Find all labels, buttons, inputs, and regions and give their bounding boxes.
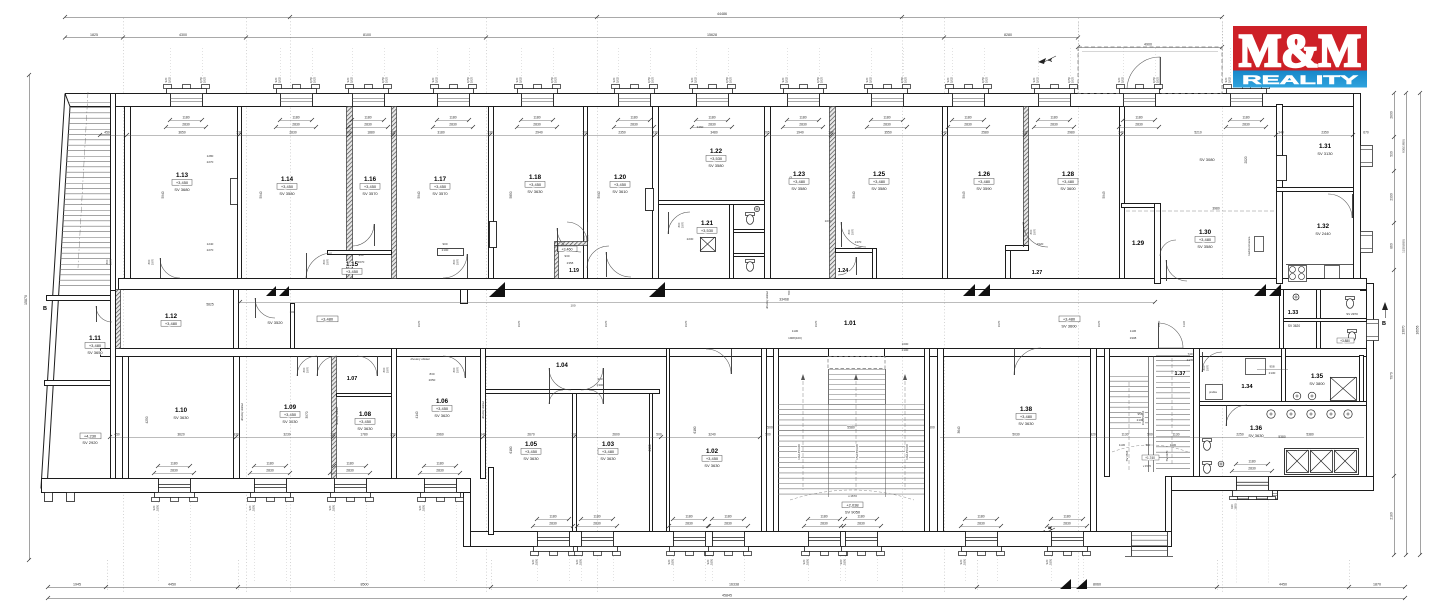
svg-text:+3,480: +3,480	[1020, 414, 1033, 419]
svg-text:+3,450: +3,450	[706, 456, 719, 461]
svg-text:1130: 1130	[1172, 433, 1179, 437]
svg-text:3970: 3970	[305, 411, 309, 418]
svg-text:SV 3630: SV 3630	[1248, 433, 1264, 438]
svg-text:5380: 5380	[1278, 435, 1286, 439]
svg-text:5943: 5943	[1102, 191, 1106, 198]
svg-text:100: 100	[582, 131, 588, 135]
svg-text:670: 670	[1363, 131, 1369, 135]
svg-text:2100: 2100	[902, 348, 909, 352]
svg-text:1850: 1850	[156, 504, 160, 511]
svg-text:+3,480: +3,480	[321, 317, 334, 322]
svg-text:1180: 1180	[182, 116, 189, 120]
svg-text:940: 940	[358, 253, 363, 257]
svg-text:450: 450	[104, 131, 110, 135]
svg-text:3640: 3640	[957, 426, 961, 433]
svg-text:4450: 4450	[168, 583, 176, 587]
svg-text:1970: 1970	[997, 320, 1001, 327]
svg-text:2580: 2580	[981, 131, 989, 135]
svg-text:1970: 1970	[306, 366, 310, 373]
svg-text:SV 3600: SV 3600	[1061, 324, 1077, 329]
svg-text:10x145/340: 10x145/340	[797, 444, 801, 460]
svg-text:+3,450: +3,450	[284, 412, 297, 417]
svg-text:2830: 2830	[883, 123, 891, 127]
svg-text:15x155/348: 15x155/348	[855, 444, 859, 460]
svg-text:1850: 1850	[710, 558, 714, 565]
svg-text:pračka: pračka	[1209, 390, 1217, 394]
svg-text:+3,480: +3,480	[873, 179, 886, 184]
svg-text:2830: 2830	[724, 522, 732, 526]
svg-text:+3,450: +3,450	[434, 184, 447, 189]
svg-text:SV 3610: SV 3610	[612, 189, 628, 194]
svg-text:1.01: 1.01	[844, 320, 857, 327]
svg-text:500: 500	[767, 426, 773, 430]
svg-text:2600: 2600	[612, 433, 620, 437]
svg-text:4140: 4140	[415, 411, 419, 418]
svg-text:1180: 1180	[964, 116, 971, 120]
svg-text:2830: 2830	[289, 131, 297, 135]
svg-text:1180: 1180	[533, 116, 540, 120]
svg-text:dřevěný obklad: dřevěný obklad	[240, 403, 244, 421]
svg-text:1.11: 1.11	[89, 335, 101, 342]
svg-text:2830: 2830	[292, 123, 300, 127]
svg-text:4450: 4450	[1279, 583, 1287, 587]
svg-text:1825: 1825	[820, 76, 824, 83]
svg-text:5580: 5580	[847, 426, 855, 430]
svg-text:2830: 2830	[533, 123, 541, 127]
svg-text:500: 500	[1147, 433, 1153, 437]
svg-text:SV 3630: SV 3630	[357, 426, 373, 431]
svg-text:1.07: 1.07	[347, 376, 358, 382]
svg-text:2980: 2980	[1067, 131, 1075, 135]
svg-text:1825: 1825	[470, 76, 474, 83]
svg-text:1.14: 1.14	[281, 176, 294, 183]
svg-text:1.26: 1.26	[978, 171, 991, 178]
svg-text:100: 100	[330, 433, 336, 437]
svg-text:100: 100	[571, 433, 577, 437]
svg-text:1.17: 1.17	[434, 176, 447, 183]
svg-text:1.10: 1.10	[175, 407, 188, 414]
svg-text:5940: 5940	[852, 191, 856, 198]
svg-text:1970: 1970	[456, 366, 460, 373]
svg-text:1908: 1908	[1130, 336, 1137, 340]
svg-text:1.30: 1.30	[1199, 229, 1212, 236]
svg-text:2050: 2050	[429, 378, 436, 382]
svg-text:1.20: 1.20	[614, 174, 627, 181]
svg-text:+3,460: +3,460	[561, 247, 572, 251]
svg-text:1825: 1825	[1121, 76, 1125, 83]
svg-text:v.1570: v.1570	[1143, 464, 1152, 468]
svg-text:1850: 1850	[332, 504, 336, 511]
svg-text:5940: 5940	[597, 191, 601, 198]
svg-text:1880: 1880	[367, 131, 375, 135]
svg-text:6180: 6180	[693, 426, 697, 433]
svg-text:265: 265	[764, 131, 770, 135]
svg-text:1136: 1136	[1130, 329, 1137, 333]
svg-text:SV 2440: SV 2440	[1315, 231, 1331, 236]
svg-text:5940: 5940	[417, 191, 421, 198]
svg-text:2830: 2830	[436, 469, 444, 473]
svg-text:+3,450: +3,450	[364, 184, 377, 189]
svg-text:1180: 1180	[364, 116, 371, 120]
svg-text:SV 3600: SV 3600	[1060, 186, 1076, 191]
svg-text:+3,450: +3,450	[529, 182, 542, 187]
svg-text:1970: 1970	[1206, 364, 1210, 371]
svg-text:910: 910	[597, 377, 602, 381]
svg-text:2358: 2358	[567, 261, 574, 265]
svg-text:SV 2970: SV 2970	[1346, 312, 1358, 316]
svg-text:1850: 1850	[1234, 503, 1238, 510]
svg-text:1825: 1825	[616, 76, 620, 83]
svg-text:250: 250	[390, 433, 396, 437]
svg-text:+3,480: +3,480	[978, 179, 991, 184]
svg-text:1825: 1825	[385, 76, 389, 83]
svg-text:SV 3630: SV 3630	[600, 456, 616, 461]
svg-text:1180: 1180	[708, 116, 715, 120]
svg-text:1970: 1970	[1157, 320, 1161, 327]
svg-text:1.08: 1.08	[359, 411, 372, 418]
svg-text:1.35: 1.35	[1311, 373, 1324, 380]
svg-text:dřevěný obklad: dřevěný obklad	[411, 357, 430, 361]
svg-text:2800: 2800	[1390, 111, 1394, 119]
svg-text:1180: 1180	[1063, 515, 1070, 519]
svg-text:1.24: 1.24	[838, 268, 849, 274]
svg-text:2830: 2830	[977, 522, 985, 526]
svg-text:5943: 5943	[962, 191, 966, 198]
svg-text:1.18: 1.18	[529, 174, 542, 181]
svg-text:340: 340	[1278, 131, 1284, 135]
svg-text:830: 830	[429, 372, 434, 376]
svg-text:5940: 5940	[161, 191, 165, 198]
svg-text:1.23: 1.23	[793, 171, 806, 178]
svg-text:2020: 2020	[1244, 156, 1248, 163]
svg-text:kachlová kamna: kachlová kamna	[1247, 236, 1251, 255]
svg-text:SV 3030: SV 3030	[282, 419, 298, 424]
svg-text:2080: 2080	[855, 246, 862, 250]
svg-text:500: 500	[656, 433, 662, 437]
svg-text:1825: 1825	[904, 76, 908, 83]
svg-text:2670: 2670	[527, 433, 535, 437]
svg-text:1.34: 1.34	[1241, 384, 1253, 390]
svg-text:1825: 1825	[950, 76, 954, 83]
svg-text:+2,038: +2,038	[846, 503, 859, 508]
svg-text:1280: 1280	[207, 154, 214, 158]
svg-text:1.03: 1.03	[602, 441, 615, 448]
svg-text:1180: 1180	[593, 515, 600, 519]
svg-text:1825: 1825	[729, 76, 733, 83]
svg-text:330: 330	[652, 131, 658, 135]
svg-text:1850: 1850	[806, 558, 810, 565]
svg-text:1825: 1825	[313, 76, 317, 83]
svg-text:1970: 1970	[684, 320, 688, 327]
svg-text:2830: 2830	[630, 123, 638, 127]
svg-text:+3,480: +3,480	[793, 179, 806, 184]
svg-text:2830: 2830	[1135, 123, 1143, 127]
svg-text:1.29: 1.29	[1132, 240, 1145, 247]
svg-text:3480: 3480	[710, 131, 718, 135]
svg-text:1970: 1970	[1097, 320, 1101, 327]
svg-text:1.37: 1.37	[1174, 371, 1185, 377]
svg-text:v.1670: v.1670	[848, 494, 857, 498]
svg-text:140: 140	[480, 433, 486, 437]
svg-text:1970: 1970	[604, 320, 608, 327]
svg-text:2270: 2270	[207, 248, 214, 252]
svg-text:+3,450: +3,450	[346, 269, 359, 274]
svg-text:6180: 6180	[509, 446, 513, 453]
svg-text:2830: 2830	[549, 522, 557, 526]
svg-text:+3,480: +3,480	[1199, 237, 1212, 242]
svg-text:1.21: 1.21	[701, 220, 714, 227]
svg-text:1850: 1850	[1049, 558, 1053, 565]
svg-text:1825: 1825	[203, 76, 207, 83]
svg-text:1970: 1970	[681, 221, 685, 228]
svg-text:+3,480: +3,480	[1062, 179, 1075, 184]
svg-text:2940: 2940	[535, 131, 543, 135]
svg-text:8060: 8060	[1093, 583, 1101, 587]
svg-text:4900: 4900	[1144, 43, 1152, 47]
svg-text:100: 100	[346, 131, 352, 135]
svg-text:1970: 1970	[109, 258, 113, 265]
svg-text:44486: 44486	[717, 12, 727, 16]
svg-text:1825: 1825	[785, 76, 789, 83]
svg-text:1180: 1180	[170, 462, 177, 466]
svg-text:dřevěný obklad: dřevěný obklad	[335, 407, 339, 425]
svg-text:1825: 1825	[168, 76, 172, 83]
svg-text:1.36: 1.36	[1250, 425, 1263, 432]
svg-text:SV 3580: SV 3580	[1197, 244, 1213, 249]
svg-text:2830: 2830	[1063, 522, 1071, 526]
svg-text:SV 3270: SV 3270	[1165, 450, 1169, 461]
svg-text:1870: 1870	[1373, 583, 1381, 587]
svg-text:1.27: 1.27	[1032, 270, 1043, 276]
svg-text:1.05: 1.05	[525, 441, 538, 448]
svg-text:1180: 1180	[1242, 116, 1249, 120]
svg-text:1130: 1130	[1119, 443, 1126, 447]
svg-text:SV 3570: SV 3570	[432, 191, 448, 196]
svg-text:SV 3630: SV 3630	[1018, 421, 1034, 426]
svg-text:1180: 1180	[724, 515, 731, 519]
svg-text:10x145/340: 10x145/340	[905, 444, 909, 460]
svg-text:1945: 1945	[73, 583, 81, 587]
svg-text:+3,880: +3,880	[1340, 339, 1350, 343]
svg-text:958: 958	[1137, 412, 1142, 416]
svg-text:+3,530: +3,530	[710, 156, 723, 161]
svg-text:1825: 1825	[278, 76, 282, 83]
svg-text:SV 3580: SV 3580	[708, 163, 724, 168]
svg-text:+4,230: +4,230	[84, 434, 97, 439]
svg-text:dřevěný obklad: dřevěný obklad	[481, 401, 485, 419]
svg-text:1825: 1825	[350, 76, 354, 83]
svg-text:1230(930): 1230(930)	[1402, 239, 1406, 253]
svg-text:2830: 2830	[266, 469, 274, 473]
svg-text:1825: 1825	[1036, 76, 1040, 83]
svg-text:2830: 2830	[964, 123, 972, 127]
svg-text:2830: 2830	[708, 123, 716, 127]
svg-text:2830: 2830	[364, 123, 372, 127]
svg-text:SV 2920: SV 2920	[82, 440, 98, 445]
svg-text:530: 530	[1390, 151, 1394, 157]
svg-text:1180: 1180	[1248, 460, 1255, 464]
svg-text:1.32: 1.32	[1317, 223, 1330, 230]
svg-text:33468: 33468	[779, 298, 789, 302]
svg-text:1180: 1180	[977, 515, 984, 519]
svg-text:1825: 1825	[694, 76, 698, 83]
svg-text:2830: 2830	[1050, 123, 1058, 127]
svg-text:2250: 2250	[1236, 433, 1244, 437]
svg-text:1908(100): 1908(100)	[788, 336, 802, 340]
svg-text:1.19: 1.19	[569, 268, 579, 274]
svg-text:1850: 1850	[843, 558, 847, 565]
svg-text:500: 500	[1146, 443, 1151, 447]
svg-text:340: 340	[1118, 131, 1124, 135]
svg-text:1136: 1136	[1182, 321, 1186, 328]
svg-text:1970: 1970	[517, 320, 521, 327]
svg-text:SV 3630: SV 3630	[704, 463, 720, 468]
svg-text:1.25: 1.25	[873, 171, 886, 178]
svg-text:SV 3630: SV 3630	[527, 189, 543, 194]
svg-text:+3,480: +3,480	[602, 449, 615, 454]
svg-text:1.13: 1.13	[176, 172, 189, 179]
svg-text:3650: 3650	[178, 131, 186, 135]
svg-text:+3,530: +3,530	[701, 228, 714, 233]
svg-text:100: 100	[828, 131, 834, 135]
svg-text:1970: 1970	[151, 258, 155, 265]
svg-text:+3,450: +3,450	[176, 180, 189, 185]
svg-text:1180: 1180	[346, 462, 353, 466]
svg-text:+1,740: +1,740	[1145, 456, 1155, 460]
svg-text:2350: 2350	[1321, 131, 1329, 135]
svg-text:700: 700	[787, 290, 791, 295]
svg-text:2830: 2830	[820, 522, 828, 526]
svg-text:45845: 45845	[722, 594, 732, 598]
svg-text:3180: 3180	[437, 131, 445, 135]
svg-text:1180: 1180	[857, 515, 864, 519]
svg-text:3240: 3240	[708, 433, 716, 437]
svg-text:+3,450: +3,450	[281, 184, 294, 189]
svg-text:2960: 2960	[436, 433, 444, 437]
svg-text:1180: 1180	[549, 515, 556, 519]
svg-text:2830: 2830	[799, 123, 807, 127]
svg-text:2830: 2830	[593, 522, 601, 526]
svg-text:SV 3680: SV 3680	[174, 187, 190, 192]
svg-text:1825: 1825	[554, 76, 558, 83]
svg-text:B: B	[1382, 321, 1386, 327]
svg-text:1180: 1180	[436, 462, 443, 466]
svg-text:1970: 1970	[851, 228, 855, 235]
svg-text:3550: 3550	[884, 131, 892, 135]
svg-text:5380: 5380	[1306, 433, 1314, 437]
svg-text:1970: 1970	[326, 258, 330, 265]
svg-text:+3,450: +3,450	[436, 406, 449, 411]
svg-text:3460: 3460	[697, 125, 704, 129]
svg-text:1825: 1825	[985, 76, 989, 83]
svg-text:100: 100	[290, 310, 295, 314]
svg-text:5210: 5210	[1194, 131, 1202, 135]
svg-text:1825: 1825	[651, 76, 655, 83]
svg-text:1180: 1180	[266, 462, 273, 466]
svg-text:2830: 2830	[449, 123, 457, 127]
svg-text:930: 930	[564, 254, 569, 258]
svg-text:1.06: 1.06	[436, 398, 449, 405]
svg-text:1825: 1825	[1071, 76, 1075, 83]
svg-text:1180: 1180	[630, 116, 637, 120]
svg-text:1.02: 1.02	[706, 448, 719, 455]
svg-text:1180: 1180	[1050, 116, 1057, 120]
svg-text:SV 3620: SV 3620	[1288, 324, 1300, 328]
svg-text:5940: 5940	[259, 191, 263, 198]
svg-text:1520: 1520	[1037, 242, 1044, 246]
svg-text:500: 500	[765, 433, 771, 437]
svg-text:8100: 8100	[363, 33, 371, 37]
svg-text:1825: 1825	[869, 76, 873, 83]
svg-text:dřevěný obklad: dřevěný obklad	[765, 291, 769, 309]
svg-text:1.33: 1.33	[1288, 310, 1299, 316]
svg-text:2350: 2350	[618, 131, 626, 135]
svg-text:SV 3130: SV 3130	[1317, 151, 1333, 156]
svg-text:1850: 1850	[579, 558, 583, 565]
svg-text:2070: 2070	[358, 260, 365, 264]
svg-text:340: 340	[941, 131, 947, 135]
svg-text:7070: 7070	[1390, 372, 1394, 380]
svg-text:2100: 2100	[442, 248, 449, 252]
svg-text:8280: 8280	[1004, 33, 1012, 37]
svg-text:1180: 1180	[799, 116, 806, 120]
svg-text:3980: 3980	[1212, 207, 1220, 211]
svg-text:SV 3630: SV 3630	[173, 415, 189, 420]
svg-text:1850: 1850	[671, 558, 675, 565]
svg-text:1850: 1850	[252, 504, 256, 511]
svg-text:SV 3520: SV 3520	[267, 320, 283, 325]
svg-text:SV 3580: SV 3580	[791, 186, 807, 191]
svg-text:1.12: 1.12	[165, 313, 178, 320]
svg-text:2830: 2830	[857, 522, 865, 526]
svg-text:1.16: 1.16	[364, 176, 377, 183]
svg-text:330: 330	[233, 433, 239, 437]
svg-text:900: 900	[442, 242, 447, 246]
svg-text:3620: 3620	[177, 433, 185, 437]
svg-text:2830: 2830	[346, 469, 354, 473]
svg-text:2230: 2230	[687, 237, 694, 241]
svg-text:+3,450: +3,450	[614, 182, 627, 187]
svg-text:740: 740	[1187, 352, 1192, 356]
svg-text:SV 3620: SV 3620	[434, 413, 450, 418]
svg-text:1825: 1825	[519, 76, 523, 83]
svg-text:500: 500	[929, 426, 935, 430]
svg-text:1180: 1180	[292, 116, 299, 120]
svg-text:SV 3568: SV 3568	[1125, 450, 1129, 461]
svg-text:1000: 1000	[902, 342, 909, 346]
svg-text:2180: 2180	[1390, 512, 1394, 520]
svg-text:1970: 1970	[386, 366, 390, 373]
svg-text:1.09: 1.09	[284, 404, 297, 411]
svg-text:1970: 1970	[814, 320, 818, 327]
svg-text:15870: 15870	[24, 295, 28, 305]
svg-text:1970: 1970	[456, 258, 460, 265]
svg-text:1940: 1940	[796, 131, 804, 135]
svg-text:B: B	[43, 306, 47, 312]
svg-text:+3,480: +3,480	[1063, 317, 1076, 322]
svg-text:1370: 1370	[855, 240, 862, 244]
svg-text:SV 3570: SV 3570	[362, 191, 378, 196]
svg-text:5030: 5030	[1012, 433, 1020, 437]
svg-text:1130: 1130	[1121, 433, 1128, 437]
svg-text:958: 958	[1269, 365, 1274, 369]
svg-text:5850: 5850	[509, 191, 513, 198]
svg-text:830(1850): 830(1850)	[1402, 139, 1406, 153]
svg-text:4250: 4250	[145, 416, 149, 423]
svg-text:13870: 13870	[1402, 325, 1406, 334]
svg-text:1180: 1180	[883, 116, 890, 120]
svg-text:2270: 2270	[207, 160, 214, 164]
